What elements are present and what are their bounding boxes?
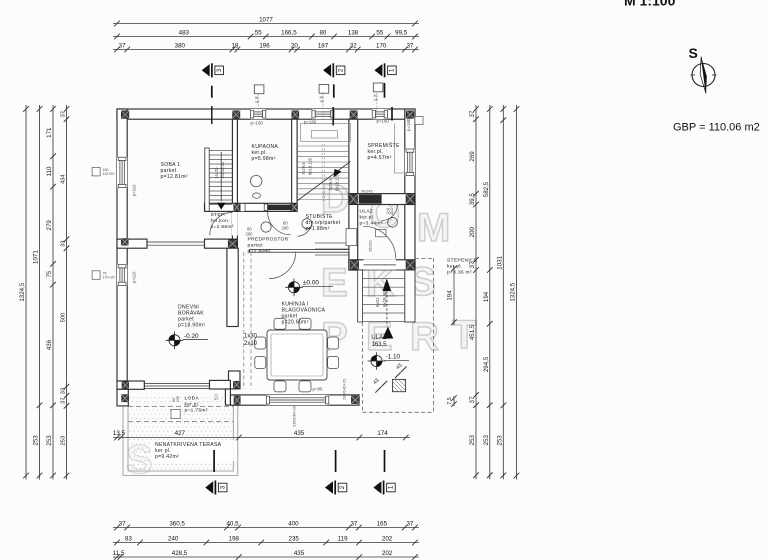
svg-text:3: 3 [216, 68, 223, 72]
room KUHINJA I BLAGOVAONICA [282, 302, 326, 326]
svg-text:±0.00: ±0.00 [303, 280, 319, 287]
svg-text:253: 253 [496, 435, 503, 446]
svg-text:2: 2 [339, 485, 346, 489]
svg-text:294,5: 294,5 [483, 356, 490, 372]
svg-text:435: 435 [294, 550, 305, 557]
svg-text:400: 400 [288, 520, 299, 527]
svg-text:55: 55 [255, 29, 262, 36]
svg-text:1077: 1077 [259, 16, 273, 23]
svg-text:37: 37 [61, 111, 67, 117]
svg-text:13,5: 13,5 [113, 430, 126, 437]
dim left line4 [61, 105, 70, 480]
door arc spremiste [382, 205, 398, 221]
svg-text:435: 435 [294, 430, 305, 437]
wall stubiste - spremiste/ulaz [349, 119, 358, 270]
dim top row2 [113, 29, 419, 39]
svg-text:p=85: p=85 [313, 387, 323, 392]
svg-text:253: 253 [483, 434, 490, 445]
svg-text:253: 253 [33, 435, 40, 446]
svg-text:138: 138 [348, 29, 359, 36]
svg-text:STUBIŠTE: STUBIŠTE [306, 213, 334, 220]
svg-text:×8: ×8 [320, 100, 324, 104]
svg-text:S: S [689, 45, 698, 61]
door arc kuhinja [269, 252, 296, 279]
vent boxes above windows [254, 83, 383, 119]
svg-text:37: 37 [119, 42, 126, 49]
svg-text:LOĐA: LOĐA [185, 396, 200, 402]
watermark DOM EKSPERT [126, 177, 476, 482]
svg-text:GBP = 110.06 m2: GBP = 110.06 m2 [673, 122, 760, 134]
svg-text:-0.20: -0.20 [184, 333, 199, 340]
nenatkrivena terasa dotted slab [123, 395, 238, 476]
section marker 3 bottom [205, 481, 213, 493]
svg-text:37: 37 [469, 110, 476, 117]
svg-text:1: 1 [389, 68, 396, 72]
svg-text:14x20: 14x20 [214, 167, 219, 179]
svg-text:2: 2 [337, 68, 344, 72]
svg-text:37: 37 [469, 396, 476, 403]
svg-text:165: 165 [377, 520, 388, 527]
svg-text:500: 500 [61, 313, 67, 323]
room SPREMISTE [368, 142, 400, 161]
door opening stubiste [291, 221, 297, 236]
room NENATKRIVENA TERASA [151, 440, 237, 461]
section line 1 bottom dash [384, 450, 386, 472]
svg-text:p=1.75m²: p=1.75m² [185, 408, 208, 414]
svg-text:ker pl.: ker pl. [447, 264, 462, 270]
wall I - dnevni/kuhinja [227, 248, 240, 389]
dim bottom row2 [113, 535, 419, 545]
svg-text:20: 20 [291, 42, 298, 49]
room DNEVNI BORAVAK [178, 305, 205, 329]
svg-text:1031: 1031 [496, 255, 503, 269]
svg-text:200: 200 [469, 226, 476, 237]
svg-text:p=160: p=160 [377, 119, 390, 124]
section marker 1 top [374, 64, 382, 76]
svg-text:166,5: 166,5 [281, 29, 297, 36]
diagonal dim 43 b [372, 378, 387, 393]
thin wall kitchen north [249, 250, 349, 253]
dim right line1 [469, 105, 479, 479]
dim top total 1077 [113, 16, 419, 26]
svg-text:40,5: 40,5 [226, 520, 239, 527]
section marker 3 top [202, 64, 210, 76]
kupaona door leaf [268, 205, 291, 211]
svg-text:279: 279 [46, 220, 53, 231]
section marker 1 bottom [373, 481, 381, 493]
dining table with chairs [255, 318, 339, 392]
dim right line3 [496, 105, 506, 479]
svg-text:1324,5: 1324,5 [510, 282, 517, 301]
svg-text:187: 187 [318, 42, 329, 49]
svg-text:170: 170 [376, 42, 387, 49]
svg-text:451,5: 451,5 [469, 324, 476, 340]
columns (reinforced concrete) [121, 111, 414, 404]
section line 1 top dash [384, 83, 386, 98]
svg-text:p=4.57m²: p=4.57m² [368, 155, 392, 161]
svg-text:235/140+20: 235/140+20 [342, 378, 347, 400]
room PREDPROSTOR [248, 237, 289, 255]
svg-text:253: 253 [46, 435, 53, 446]
window callout box left 2 [92, 271, 100, 280]
svg-text:110+20: 110+20 [103, 172, 115, 176]
dim bottom row3 [113, 550, 419, 560]
svg-text:37: 37 [61, 398, 67, 404]
svg-text:198: 198 [229, 535, 240, 542]
spremiste niche outline [394, 124, 404, 173]
dim right line2 [483, 105, 493, 479]
door arc entrance [363, 226, 396, 259]
elevation marker -1.10 [371, 355, 382, 366]
section line 3 bottom dash [213, 450, 215, 472]
svg-text:-1.10: -1.10 [386, 354, 401, 361]
door arc stubiste [297, 221, 312, 236]
svg-text:37: 37 [119, 520, 126, 527]
svg-text:35/263: 35/263 [369, 240, 373, 252]
svg-text:p=160: p=160 [304, 120, 317, 125]
svg-text:37: 37 [406, 520, 413, 527]
svg-text:8x18,125: 8x18,125 [308, 157, 313, 175]
svg-text:194: 194 [447, 290, 454, 301]
right exterior wall [405, 109, 415, 270]
dim middle row [113, 430, 410, 440]
svg-text:1071: 1071 [33, 250, 40, 264]
overhead gallery dashed lines [244, 252, 251, 389]
room STUBISTE [306, 213, 341, 232]
room LODJA [185, 396, 208, 414]
svg-text:200: 200 [176, 396, 180, 402]
svg-text:380: 380 [175, 42, 186, 49]
room STEP [211, 212, 234, 230]
svg-text:196: 196 [259, 42, 270, 49]
svg-text:37: 37 [406, 42, 413, 49]
svg-text:110: 110 [46, 166, 53, 176]
svg-text:253: 253 [61, 436, 67, 446]
svg-text:8x18,125: 8x18,125 [335, 173, 340, 191]
svg-text:200: 200 [282, 226, 290, 231]
loggia west step wall [117, 389, 128, 406]
svg-text:p=110: p=110 [132, 184, 137, 196]
svg-text:parket: parket [248, 243, 264, 249]
loggia drain box [171, 409, 180, 418]
dim bottom row1 [113, 520, 419, 530]
svg-text:99,5: 99,5 [395, 29, 408, 36]
room STEPENICE [447, 258, 478, 276]
section line 2 bottom dash [335, 450, 337, 472]
south wall east - kuhinja [231, 395, 360, 405]
dim stepenice 194 [447, 266, 457, 325]
svg-text:235: 235 [289, 535, 300, 542]
svg-text:32: 32 [350, 42, 357, 49]
svg-text:2x10: 2x10 [244, 341, 258, 347]
dim 7,5 [447, 395, 457, 407]
svg-text:55: 55 [376, 29, 383, 36]
svg-text:119: 119 [338, 535, 348, 542]
svg-text:174: 174 [377, 430, 388, 437]
svg-text:6x18,50: 6x18,50 [382, 291, 387, 307]
svg-text:×8: ×8 [255, 100, 259, 104]
svg-text:žel.kon.: žel.kon. [211, 218, 230, 224]
svg-text:STEP.: STEP. [211, 212, 226, 218]
svg-text:240: 240 [168, 535, 179, 542]
svg-text:p=2.86m²: p=2.86m² [211, 224, 234, 230]
stair STEP (steel) [205, 148, 233, 211]
south wall west - loggia/dnevni [117, 380, 230, 405]
svg-text:1324,5: 1324,5 [19, 282, 26, 301]
top exterior wall [117, 109, 415, 119]
svg-text:p=110: p=110 [132, 271, 137, 283]
wall kupaona - stubiste [292, 119, 298, 204]
svg-text:SPREMIŠTE: SPREMIŠTE [368, 142, 400, 149]
window parapet notes [132, 118, 411, 427]
stair STUBISTE (main) [297, 124, 357, 255]
svg-text:p=160: p=160 [251, 121, 264, 126]
left exterior wall [117, 109, 127, 381]
vent box right wall [415, 117, 423, 125]
compass [689, 45, 717, 94]
section line 2 top dash [333, 84, 335, 97]
svg-text:16x18,30: 16x18,30 [220, 161, 225, 179]
svg-text:6x31: 6x31 [375, 297, 380, 307]
door arc soba1 [210, 212, 233, 235]
stubiste circle fixture [302, 219, 312, 229]
kupaona sink [251, 175, 262, 186]
section line 3 top dash [211, 86, 213, 98]
canopy dashed outline [363, 258, 434, 412]
svg-text:11,5: 11,5 [113, 550, 125, 557]
svg-text:p=2.80m²: p=2.80m² [248, 249, 271, 255]
svg-text:p=160: p=160 [406, 118, 411, 131]
svg-text:ker.pl.: ker.pl. [185, 402, 200, 408]
svg-text:p=12.81m²: p=12.81m² [161, 174, 188, 180]
svg-text:5,0: 5,0 [214, 394, 219, 400]
svg-text:37: 37 [350, 520, 357, 527]
elevation marker +-0.00 [288, 282, 299, 293]
svg-text:7x29,5: 7x29,5 [301, 162, 306, 175]
dim left line2 [33, 105, 43, 480]
ulaz drain circle [388, 217, 398, 227]
svg-text:202: 202 [382, 550, 393, 557]
section marker 2 top [323, 64, 331, 76]
door arc kupaona [268, 212, 291, 235]
svg-text:171: 171 [46, 127, 53, 138]
svg-text:3: 3 [219, 485, 226, 489]
svg-text:p=8.36 m²: p=8.36 m² [447, 270, 472, 276]
svg-text:427: 427 [175, 430, 186, 437]
svg-text:253: 253 [469, 434, 476, 445]
svg-text:39,5: 39,5 [469, 193, 476, 206]
svg-text:200: 200 [246, 232, 254, 237]
elevation marker -0.20 [169, 335, 180, 346]
svg-text:269: 269 [469, 151, 476, 162]
svg-text:436: 436 [46, 339, 53, 350]
dim right total 1324,5 [510, 105, 520, 480]
svg-text:83: 83 [125, 535, 132, 542]
svg-text:1x30: 1x30 [244, 334, 258, 340]
svg-text:p=18.90m²: p=18.90m² [178, 323, 205, 329]
svg-text:7,5: 7,5 [447, 397, 453, 405]
dim left line3 [46, 105, 56, 480]
svg-text:1: 1 [388, 485, 395, 489]
dim left total 1324,5 [19, 105, 29, 480]
svg-text:p=3.44m²: p=3.44m² [360, 221, 383, 227]
room NENATKRIVENA TERASA label [155, 442, 222, 460]
stair STEPENICE (exterior) [358, 270, 415, 339]
predprostor circle fixture [261, 222, 271, 232]
window callout box left 1 [92, 167, 100, 176]
svg-text:7x29,5: 7x29,5 [328, 178, 333, 191]
svg-text:33: 33 [61, 388, 67, 394]
wall F west - kupaona south [205, 203, 298, 211]
wall D - soba1/dnevni [117, 239, 237, 248]
svg-text:×8: ×8 [373, 98, 377, 102]
diagonal dim 43 a [395, 363, 407, 379]
svg-text:ker.pl.: ker.pl. [360, 215, 375, 221]
door opening soba1 [232, 212, 238, 236]
room SOBA 1 [161, 162, 188, 180]
room KUPAONA [252, 144, 279, 162]
svg-text:80: 80 [319, 29, 326, 36]
section marker 2 bottom [325, 481, 333, 493]
svg-text:75: 75 [46, 270, 53, 277]
svg-text:434: 434 [61, 174, 67, 184]
svg-text:PREDPROSTOR: PREDPROSTOR [248, 237, 289, 243]
room ULAZ [360, 209, 383, 227]
svg-text:37: 37 [469, 261, 476, 268]
svg-text:M 1:100: M 1:100 [624, 0, 676, 9]
wall F east - spremiste south [349, 194, 415, 237]
svg-text:235/140+20: 235/140+20 [292, 405, 297, 427]
svg-text:18: 18 [231, 42, 238, 49]
svg-text:p=1.88m²: p=1.88m² [306, 226, 330, 232]
svg-text:360,5: 360,5 [169, 520, 185, 527]
svg-text:163,5: 163,5 [371, 342, 387, 348]
dim top row3 [113, 42, 419, 52]
svg-text:200: 200 [387, 211, 393, 215]
svg-text:ULAZ: ULAZ [360, 209, 374, 215]
svg-text:170+20: 170+20 [103, 276, 115, 280]
svg-text:M: M [417, 206, 450, 250]
svg-text:E: E [321, 261, 348, 305]
svg-text:p=20.60m²: p=20.60m² [282, 320, 309, 326]
svg-text:428,5: 428,5 [172, 550, 188, 557]
svg-text:p=9.42m²: p=9.42m² [155, 454, 179, 460]
svg-text:p=5.98m²: p=5.98m² [252, 156, 276, 162]
svg-text:202: 202 [382, 535, 393, 542]
wall between stair shaft and kupaona [232, 119, 237, 248]
svg-text:ULAZ: ULAZ [371, 335, 387, 341]
svg-text:194: 194 [483, 291, 490, 302]
svg-text:483: 483 [179, 29, 190, 36]
svg-text:90/245: 90/245 [361, 189, 373, 193]
svg-text:582,5: 582,5 [483, 181, 490, 197]
entrance wall G [349, 259, 415, 270]
svg-text:33: 33 [61, 241, 67, 247]
